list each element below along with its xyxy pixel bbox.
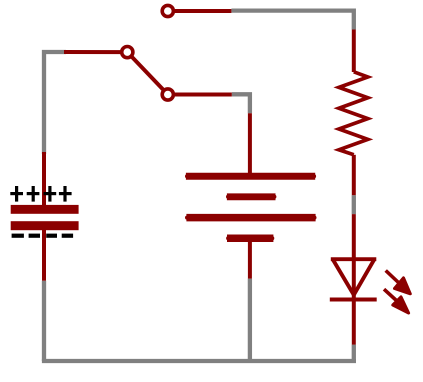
wire: capacitor bottom to bottom rail (gray) (42, 281, 46, 361)
LED D1 triangle top edge (331, 257, 377, 261)
LED D1 light arrow 2 (384, 289, 409, 313)
battery B1 short plate 1 (-) (228, 195, 274, 199)
LED D1 triangle right side (354, 259, 375, 295)
switch SW1 pivot terminal circle (122, 47, 133, 58)
resistor R1 bottom lead (352, 155, 356, 195)
capacitor C1 top lead (42, 152, 46, 208)
LED D1 triangle left side (333, 259, 354, 295)
battery B1 long plate 2 (+) (187, 216, 315, 220)
battery B1 short plate 2 (-) (228, 236, 272, 240)
LED D1 cathode lead (352, 299, 356, 345)
switch SW1 bottom throw terminal circle (162, 89, 173, 100)
capacitor C1 (polarized electrolytic) (10, 152, 78, 281)
LED D1 (330, 214, 411, 345)
capacitor C1 minus polarity marks (12, 234, 74, 238)
resistor R1 top lead (352, 30, 356, 73)
switch SW1 pivot lead (left) (64, 50, 127, 54)
wire: resistor bottom to LED anode (gray) (352, 195, 356, 214)
wire: bottom rail (gray) (42, 359, 356, 363)
LED D1 cathode bar (330, 298, 377, 302)
resistor R1 zigzag body (339, 72, 368, 155)
switch SW1 bottom throw lead (168, 93, 232, 97)
capacitor C1 bottom lead (42, 226, 46, 281)
LED D1 anode lead (352, 214, 356, 300)
wire: switch top throw to resistor top (gray, top-right corner) (231, 11, 353, 30)
wire: battery bottom to bottom rail (gray) (248, 279, 252, 361)
battery B1 top lead (248, 113, 252, 176)
wire: switch pivot lead to capacitor top (gray, top-left corner) (44, 52, 66, 154)
wire: switch bottom throw to battery top (gray) (232, 94, 250, 113)
switch SW1 (SPDT) (64, 5, 232, 100)
capacitor C1 bottom plate (11, 221, 79, 230)
switch SW1 lever arm (127, 52, 168, 94)
wire: LED cathode to bottom rail (gray) (352, 345, 356, 361)
capacitor C1 plus polarity marks (10, 186, 71, 202)
resistor R1 (339, 30, 368, 196)
battery B1 long plate 1 (+) (187, 174, 314, 178)
LED D1 light arrow 1 (386, 271, 411, 294)
battery B1 (186, 113, 316, 278)
switch SW1 top throw lead (168, 9, 232, 13)
capacitor C1 top plate (11, 205, 79, 214)
battery B1 bottom lead (248, 238, 252, 279)
switch SW1 top throw terminal circle (162, 5, 173, 16)
